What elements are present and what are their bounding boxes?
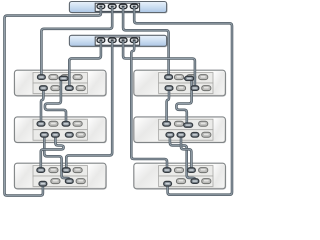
connector shelf2-left bottom port2 bbox=[52, 133, 60, 138]
disk shelf 1 right bbox=[134, 70, 226, 96]
connector shelf2-right bottom port1 bbox=[166, 133, 174, 138]
cable: controller2 port3 to shelf1-right bottom port3 bbox=[123, 42, 195, 89]
controller 2 (bottom) bbox=[69, 35, 167, 47]
cable: controller1 port2 to shelf1-left top port1 bbox=[41, 8, 112, 77]
cable: controller2 port4 to shelf3-right top port1 bbox=[131, 42, 167, 171]
disk shelf 3 right bbox=[134, 163, 226, 189]
cable: shelf1-left bottom port1 to shelf2-left top port1 bbox=[41, 88, 43, 124]
connector shelf2-right bottom port2 bbox=[177, 133, 185, 138]
cable: shelf1-right bottom port1 to shelf2-right top port1 bbox=[167, 88, 169, 124]
connector shelf1-right bottom port3 bbox=[191, 86, 199, 91]
cable: shelf2-right bottom port2 to shelf3-right top port3 bbox=[181, 135, 191, 170]
connector shelf2-right top port3 (side entry) bbox=[184, 123, 193, 127]
connector shelf2-right bottom port3 bbox=[191, 133, 199, 138]
disk shelf 1 left bbox=[14, 70, 106, 96]
cable: controller1 port3 to shelf1-right top port1 bbox=[123, 8, 169, 77]
cable: controller1 port1 to shelf3-left bottom port1 (long left route) bbox=[5, 8, 101, 196]
cable: shelf2-right bottom port1 to shelf3-right bottom port3 bbox=[170, 135, 195, 180]
cable: controller1 port4 to shelf3-right bottom port1 (long right route) bbox=[134, 8, 232, 195]
disk shelf 3 left bbox=[14, 163, 106, 189]
cable: shelf2-left bottom port1 to shelf3-left bottom port3 bbox=[44, 135, 69, 180]
connector shelf2-left top port3 bbox=[62, 122, 70, 127]
disk shelf 2 right bbox=[134, 117, 226, 143]
connector shelf2-left bottom port1 bbox=[40, 133, 48, 138]
connector shelf3-right top port1 bbox=[163, 168, 171, 173]
connector shelf3-left bottom port1 (from below) bbox=[39, 181, 47, 186]
cable: shelf1-right top port3 to shelf2-right top port3 (Z route) bbox=[176, 78, 191, 125]
cable: shelf2-left bottom port2 to shelf3-left top port1 bbox=[41, 135, 64, 170]
connector shelf2-left top port1 bbox=[37, 122, 45, 127]
cable: controller2 port2 to shelf3-left top port3 bbox=[66, 42, 112, 171]
connector shelf1-left top port1 bbox=[38, 75, 46, 80]
connector shelf2-left bottom port3 bbox=[65, 133, 73, 138]
connector shelf3-right bottom port1 (from below) bbox=[164, 181, 172, 186]
connector shelf1-right top port1 bbox=[165, 75, 173, 80]
connector shelf1-left bottom port1 bbox=[40, 86, 48, 91]
connector shelf3-left top port1 bbox=[37, 168, 45, 173]
connector shelf3-left bottom port3 bbox=[65, 179, 73, 184]
connector shelf1-right bottom port1 bbox=[165, 86, 173, 91]
cable: shelf1-left top port3 to shelf2-left top port3 (Z route) bbox=[45, 78, 67, 123]
disk shelf 2 left bbox=[14, 117, 106, 143]
connector shelf1-right top port3 (side entry) bbox=[185, 76, 194, 80]
cable: controller2 port1 to shelf1-left bottom port3 bbox=[69, 42, 101, 89]
connector shelf2-right top port1 bbox=[163, 122, 171, 127]
connector shelf1-left top port3 (side entry) bbox=[59, 76, 68, 80]
controller 1 (top) bbox=[69, 2, 167, 14]
connector shelf1-left bottom port3 bbox=[65, 86, 73, 91]
connector shelf3-right top port3 bbox=[188, 168, 196, 173]
connector shelf3-left top port3 bbox=[62, 168, 70, 173]
connector shelf3-right bottom port3 bbox=[191, 179, 199, 184]
